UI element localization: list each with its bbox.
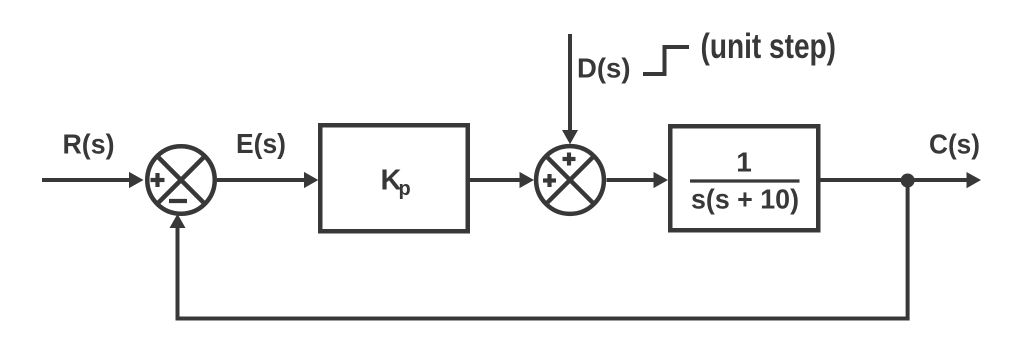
svg-text:(unit step): (unit step) — [701, 27, 837, 66]
summing junction S2 — [536, 146, 604, 214]
svg-text:1: 1 — [736, 147, 752, 178]
block Kp — [320, 125, 468, 231]
wire Kp to summer 2 — [470, 178, 521, 182]
plus sign on S2 top input — [563, 153, 576, 166]
svg-text:R(s): R(s) — [63, 129, 115, 160]
wire summer 2 to plant block — [607, 178, 655, 182]
wire summer 1 to block Kp — [217, 178, 305, 182]
block G(s) = 1/(s(s+10)) — [670, 126, 818, 230]
node pickoff junction dot — [901, 174, 915, 188]
plus sign on S2 left input — [543, 174, 556, 187]
svg-text:C(s): C(s) — [929, 129, 980, 160]
svg-text:E(s): E(s) — [236, 128, 286, 159]
plus sign on S1 left input — [151, 173, 165, 187]
wire disturbance D(s) into summer 2 top — [568, 34, 572, 131]
svg-text:s(s + 10): s(s + 10) — [691, 184, 799, 215]
fraction bar — [690, 179, 800, 182]
svg-text:D(s): D(s) — [577, 52, 631, 83]
minus sign on S1 bottom input — [169, 199, 187, 203]
summing junction S1 — [147, 146, 215, 214]
wire plant output to C(s) — [821, 178, 968, 182]
wire input R(s) to summer 1 — [42, 178, 130, 182]
wire feedback path — [178, 180, 908, 319]
unit step symbol — [643, 47, 689, 74]
svg-text:p: p — [399, 178, 411, 200]
